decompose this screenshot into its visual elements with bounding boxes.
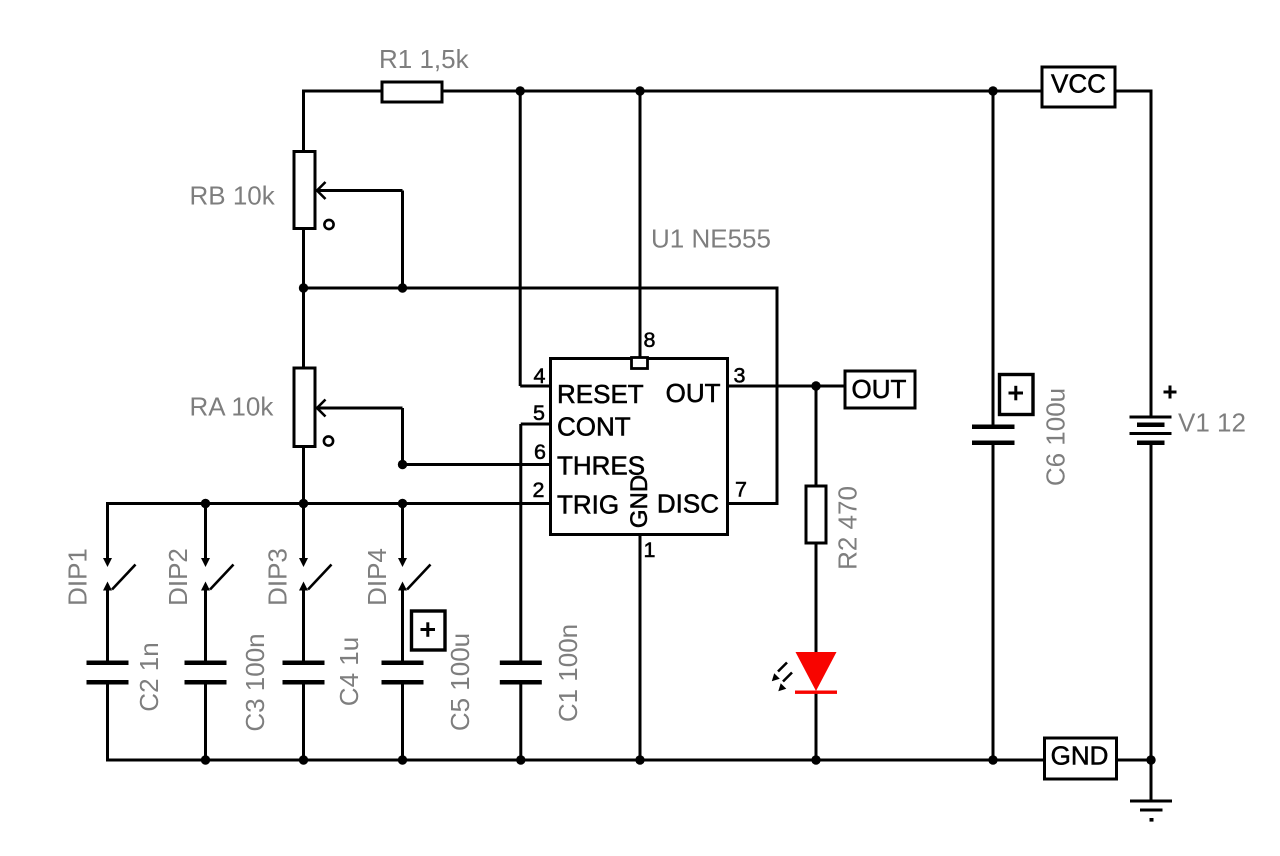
svg-text:U1 NE555: U1 NE555: [651, 224, 771, 254]
svg-text:OUT: OUT: [666, 378, 721, 408]
svg-text:R1 1,5k: R1 1,5k: [379, 44, 470, 74]
svg-text:C5 100u: C5 100u: [445, 633, 475, 731]
svg-text:5: 5: [533, 401, 545, 425]
svg-text:C1 100n: C1 100n: [553, 624, 583, 722]
svg-text:DISC: DISC: [657, 489, 719, 519]
svg-text:R2 470: R2 470: [833, 486, 863, 570]
svg-text:RESET: RESET: [557, 379, 644, 409]
svg-text:3: 3: [734, 364, 746, 388]
svg-text:C6 100u: C6 100u: [1041, 388, 1071, 486]
svg-text:8: 8: [644, 328, 656, 352]
svg-text:RB 10k: RB 10k: [190, 181, 276, 211]
svg-text:DIP3: DIP3: [263, 548, 293, 606]
svg-text:6: 6: [534, 440, 546, 464]
svg-text:C3 100n: C3 100n: [240, 633, 270, 731]
svg-text:V1 12: V1 12: [1178, 408, 1246, 438]
svg-text:TRIG: TRIG: [557, 490, 619, 520]
svg-text:C2 1n: C2 1n: [134, 642, 164, 711]
svg-text:7: 7: [735, 478, 747, 502]
svg-text:GND: GND: [1051, 741, 1109, 771]
svg-text:4: 4: [534, 364, 546, 388]
svg-text:DIP1: DIP1: [63, 548, 93, 606]
svg-text:C4 1u: C4 1u: [334, 637, 364, 706]
svg-text:GND: GND: [626, 475, 653, 528]
svg-text:CONT: CONT: [557, 412, 631, 442]
svg-text:RA 10k: RA 10k: [190, 392, 275, 422]
svg-text:1: 1: [644, 538, 656, 562]
svg-text:2: 2: [533, 478, 545, 502]
svg-text:OUT: OUT: [852, 374, 907, 404]
svg-text:VCC: VCC: [1051, 69, 1106, 99]
svg-text:DIP2: DIP2: [163, 548, 193, 606]
svg-text:DIP4: DIP4: [362, 548, 392, 606]
